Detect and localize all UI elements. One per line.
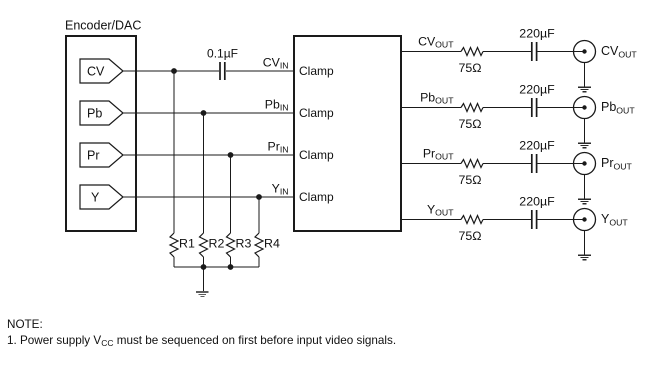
DAC output pin Pb — [80, 101, 123, 125]
wire Pb row — [123, 112, 294, 114]
wire connector ground stem — [584, 175, 586, 200]
wire Pr row — [123, 154, 294, 156]
connector jack CVout — [574, 41, 596, 63]
svg-text:75Ω: 75Ω — [459, 61, 482, 75]
resistor 75 ohm (Y channel) — [461, 216, 483, 224]
svg-text:YOUT: YOUT — [427, 203, 454, 218]
svg-text:0.1µF: 0.1µF — [207, 47, 238, 61]
wire capacitor to connector — [537, 163, 584, 165]
svg-text:R2: R2 — [209, 236, 225, 250]
node bus/R3 junction — [228, 264, 234, 270]
connector jack Pbout — [574, 97, 596, 119]
connector jack Prout — [574, 153, 596, 175]
svg-text:Clamp: Clamp — [299, 64, 334, 78]
svg-text:220µF: 220µF — [519, 195, 555, 209]
svg-text:Pr: Pr — [87, 149, 100, 163]
capacitor 220uF (Pr channel) — [531, 154, 533, 173]
wire resistor to capacitor — [483, 219, 531, 221]
label Encoder/DAC — [65, 19, 141, 33]
DAC output pin Pr — [80, 143, 123, 167]
resistor R2 — [200, 233, 225, 257]
svg-text:R4: R4 — [264, 236, 280, 250]
ground (bias network) — [196, 292, 209, 297]
resistor 75 ohm (CV channel) — [461, 48, 483, 56]
wire resistor to capacitor — [483, 107, 531, 109]
resistor R4 — [255, 233, 280, 257]
svg-text:220µF: 220µF — [519, 27, 555, 41]
svg-text:220µF: 220µF — [519, 83, 555, 97]
note text — [7, 318, 396, 348]
svg-text:Y: Y — [91, 191, 100, 205]
svg-text:Clamp: Clamp — [299, 190, 334, 204]
wire ground stem — [203, 267, 205, 291]
svg-text:R1: R1 — [179, 236, 195, 250]
resistor 75 ohm (Pr channel) — [461, 160, 483, 168]
wire clamp Pr output — [400, 163, 461, 165]
svg-text:NOTE:: NOTE: — [7, 318, 43, 331]
wire R1 tail — [173, 257, 175, 267]
wire clamp Y output — [400, 219, 461, 221]
wire CV row (DAC to capacitor) — [123, 70, 219, 72]
DAC output pin CV — [80, 59, 123, 83]
wire R4 drop — [258, 197, 260, 233]
clamp block U1 — [294, 36, 401, 231]
svg-text:PrIN: PrIN — [268, 140, 289, 155]
node CV/R1 junction — [171, 68, 177, 74]
wire connector ground stem — [584, 63, 586, 88]
capacitor 220uF (CV channel) — [531, 42, 533, 61]
svg-text:PbOUT: PbOUT — [601, 100, 635, 116]
Encoder/DAC block — [66, 36, 136, 231]
wire connector ground stem — [584, 119, 586, 144]
svg-text:R3: R3 — [236, 236, 252, 250]
DAC output pin Y — [80, 185, 123, 209]
wire capacitor to connector — [537, 51, 584, 53]
resistor 75 ohm (Pb channel) — [461, 104, 483, 112]
capacitor 220uF (Pb channel) — [531, 98, 533, 117]
wire R3 tail — [230, 257, 232, 267]
ground (Y connector) — [578, 255, 591, 260]
wire capacitor to connector — [537, 107, 584, 109]
node Pr/R3 junction — [228, 152, 234, 158]
node Pb/R2 junction — [201, 110, 207, 116]
wire R1 drop — [173, 71, 175, 233]
wire clamp CV output — [400, 51, 461, 53]
svg-text:Clamp: Clamp — [299, 148, 334, 162]
svg-text:Pb: Pb — [87, 107, 102, 121]
wire capacitor to connector — [537, 219, 584, 221]
ground (Pr connector) — [578, 199, 591, 204]
svg-text:PrOUT: PrOUT — [601, 156, 633, 172]
wire R2 drop — [203, 113, 205, 233]
svg-text:CVOUT: CVOUT — [418, 35, 454, 50]
connector jack Yout — [574, 209, 596, 231]
svg-text:PrOUT: PrOUT — [423, 147, 454, 162]
capacitor 220uF (Y channel) — [531, 210, 533, 229]
svg-text:75Ω: 75Ω — [459, 173, 482, 187]
svg-text:75Ω: 75Ω — [459, 229, 482, 243]
svg-text:YOUT: YOUT — [601, 212, 628, 228]
wire resistor to capacitor — [483, 51, 531, 53]
svg-text:CV: CV — [87, 65, 105, 79]
ground (CV connector) — [578, 87, 591, 92]
resistor R1 — [170, 233, 195, 257]
svg-text:Encoder/DAC: Encoder/DAC — [65, 19, 141, 33]
svg-text:PbIN: PbIN — [265, 98, 289, 113]
wire Y row — [123, 196, 294, 198]
resistor R3 — [227, 233, 252, 257]
wire resistor to capacitor — [483, 163, 531, 165]
node Y/R4 junction — [256, 194, 262, 200]
svg-text:75Ω: 75Ω — [459, 117, 482, 131]
wire R4 tail — [258, 257, 260, 267]
svg-text:1. Power supply VCC must be se: 1. Power supply VCC must be sequenced on… — [7, 334, 396, 348]
wire ground bus — [174, 266, 259, 268]
wire connector ground stem — [584, 231, 586, 256]
wire R3 drop — [230, 155, 232, 233]
svg-text:YIN: YIN — [272, 182, 289, 197]
svg-text:PbOUT: PbOUT — [420, 91, 454, 106]
svg-text:220µF: 220µF — [519, 139, 555, 153]
capacitor 0.1uF — [207, 47, 238, 81]
wire CV row (capacitor to clamp CVin) — [226, 70, 294, 72]
svg-text:Clamp: Clamp — [299, 106, 334, 120]
svg-text:CVIN: CVIN — [263, 56, 289, 71]
ground (Pb connector) — [578, 143, 591, 148]
node bus/R2 junction — [201, 264, 207, 270]
wire clamp Pb output — [400, 107, 461, 109]
wire R2 tail — [203, 257, 205, 267]
svg-text:CVOUT: CVOUT — [601, 44, 637, 60]
